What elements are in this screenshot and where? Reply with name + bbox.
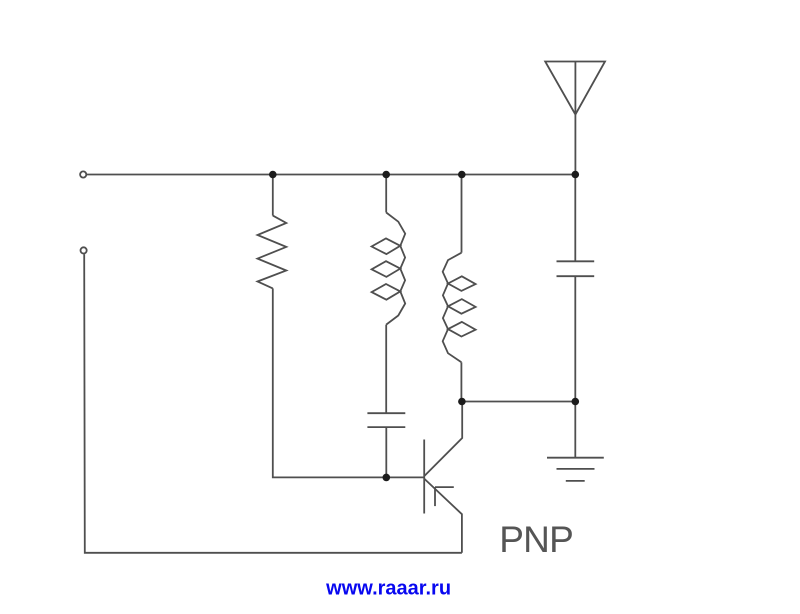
node ground junction	[572, 398, 580, 406]
node L1 top	[382, 171, 390, 179]
capacitor C2	[557, 175, 595, 402]
svg-text:www.raaar.ru: www.raaar.ru	[325, 578, 451, 600]
wire mid rail	[462, 401, 575, 403]
transistor Q1	[424, 402, 462, 553]
node L2 top	[458, 171, 466, 179]
terminal J2	[81, 247, 87, 253]
wire top rail	[86, 174, 575, 176]
wire R1 bottom to Q1 base	[273, 288, 424, 477]
wire J2 down to bottom rail	[84, 254, 462, 553]
node antenna junction	[572, 171, 580, 179]
node base junction	[383, 474, 391, 482]
node collector junction	[458, 398, 466, 406]
node resistor top	[269, 171, 277, 179]
capacitor C1	[367, 413, 405, 477]
terminal J1	[80, 171, 86, 177]
inductor L1	[372, 175, 406, 414]
inductor L2	[443, 175, 476, 402]
ground	[547, 402, 604, 481]
antenna ANT	[545, 62, 605, 175]
svg-text:PNP: PNP	[499, 519, 573, 560]
resistor R1	[258, 175, 287, 289]
